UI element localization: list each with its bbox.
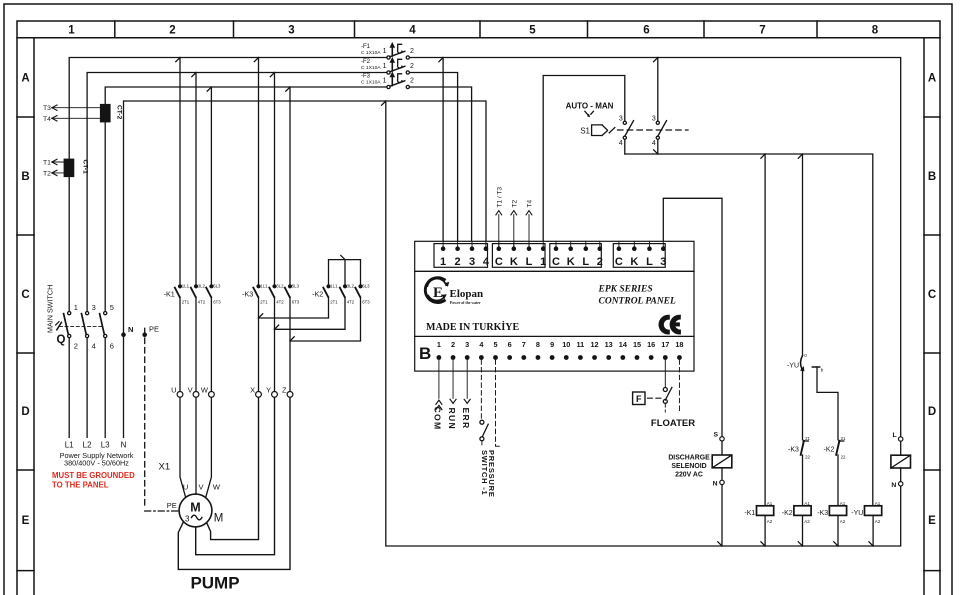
svg-text:U: U <box>171 386 176 395</box>
svg-text:ERR: ERR <box>461 408 471 430</box>
NC interlock contact -K2 (21-22) <box>823 436 846 460</box>
wire L3 branch to contactor K3 pole 3 <box>289 87 291 284</box>
discharge solenoid valve 220V AC <box>668 432 731 488</box>
selector switch S1 AUTO-MAN <box>566 102 688 148</box>
svg-text:4: 4 <box>92 342 96 351</box>
svg-text:T1 / T3: T1 / T3 <box>496 187 503 208</box>
svg-text:14: 14 <box>619 340 628 349</box>
svg-text:6T3: 6T3 <box>362 300 370 305</box>
svg-text:B: B <box>419 344 431 363</box>
svg-text:C 1X10A: C 1X10A <box>361 65 381 71</box>
svg-text:4T2: 4T2 <box>347 300 355 305</box>
svg-text:A2: A2 <box>804 519 810 524</box>
svg-text:22: 22 <box>841 454 846 459</box>
svg-text:CT-2: CT-2 <box>116 105 123 120</box>
motor M1: pump motor 3~ <box>167 494 224 527</box>
wire L2 drop from switch to supply terminal <box>86 338 88 438</box>
svg-text:2: 2 <box>451 340 455 349</box>
svg-text:4: 4 <box>409 25 416 37</box>
svg-text:6: 6 <box>643 25 649 37</box>
svg-text:A1: A1 <box>840 501 846 506</box>
svg-text:1: 1 <box>383 48 387 55</box>
wire L1 net: main switch to F1, branches to K1, K3, panel 1, S1, solenoid L <box>69 58 901 437</box>
svg-text:L2: L2 <box>83 441 92 450</box>
svg-text:21: 21 <box>805 436 810 441</box>
svg-text:S1: S1 <box>580 127 590 136</box>
svg-text:K: K <box>510 256 518 268</box>
svg-text:17: 17 <box>661 340 669 349</box>
svg-text:E: E <box>928 515 936 527</box>
svg-text:C: C <box>552 256 560 268</box>
wire motor return leads to X Y Z <box>178 397 290 569</box>
svg-text:4: 4 <box>652 140 656 147</box>
label EPK SERIES CONTROL PANEL <box>426 285 676 334</box>
svg-text:-K2: -K2 <box>782 510 793 517</box>
wire N net: neutral from switch to panel 4 and coil return bus <box>124 101 487 437</box>
svg-text:12: 12 <box>590 340 598 349</box>
svg-text:7: 7 <box>522 340 526 349</box>
svg-text:1: 1 <box>383 63 387 70</box>
svg-text:6T3: 6T3 <box>292 300 300 305</box>
svg-text:A1: A1 <box>767 501 773 506</box>
svg-text:DISCHARGE: DISCHARGE <box>668 455 710 462</box>
svg-text:C: C <box>615 256 623 268</box>
label PUMP <box>190 574 239 593</box>
svg-text:6: 6 <box>110 342 114 351</box>
svg-text:TO THE PANEL: TO THE PANEL <box>52 480 109 489</box>
svg-text:5L3: 5L3 <box>362 283 370 288</box>
terminal row B 1-18 <box>419 340 684 363</box>
svg-text:8: 8 <box>872 25 879 37</box>
svg-text:A1: A1 <box>875 501 881 506</box>
svg-text:3: 3 <box>660 256 666 268</box>
terminal block CKL3 on panel top <box>613 241 666 267</box>
node B2 RUN signal <box>447 360 457 430</box>
svg-text:-YU: -YU <box>851 510 863 517</box>
svg-text:A2: A2 <box>840 519 846 524</box>
svg-text:X: X <box>250 386 255 395</box>
relay coil -YU (A1-A2) <box>851 501 881 546</box>
NC interlock contact -K3 (21-22) <box>788 436 811 460</box>
svg-text:-YU: -YU <box>787 362 799 369</box>
wire K1 outputs to terminals U V W <box>180 297 211 391</box>
CE mark <box>658 315 680 335</box>
svg-text:T4: T4 <box>527 200 534 208</box>
svg-text:-K1: -K1 <box>744 510 755 517</box>
svg-text:-K1: -K1 <box>164 289 175 298</box>
node N terminal dot at main switch <box>121 325 133 337</box>
svg-text:L3: L3 <box>101 441 110 450</box>
node L1 L2 L3 N supply terminals <box>52 441 135 490</box>
svg-text:5: 5 <box>529 25 536 37</box>
svg-text:4T2: 4T2 <box>276 300 284 305</box>
svg-text:1: 1 <box>68 25 75 37</box>
svg-text:L: L <box>893 432 897 439</box>
contactor K1 main poles <box>164 283 222 304</box>
wire L3 net: main switch to F3, branches to K1, K3, panel 3 <box>105 87 471 312</box>
svg-text:5: 5 <box>493 340 497 349</box>
wire control feed from S1 contacts to coils rail <box>625 139 873 506</box>
circuit breaker F2 C 1X10A <box>361 57 414 74</box>
relay coil -K1 (A1-A2) <box>744 501 773 546</box>
wire branch to K1 coil <box>764 154 766 506</box>
svg-text:2T1: 2T1 <box>260 300 268 305</box>
node PE: protective earth terminal with dashed lead to motor <box>142 324 179 511</box>
svg-text:-K3: -K3 <box>788 446 799 453</box>
svg-text:MUST BE GROUNDED: MUST BE GROUNDED <box>52 471 135 480</box>
svg-text:1: 1 <box>540 256 546 268</box>
svg-text:Q: Q <box>57 334 66 346</box>
svg-text:S: S <box>713 432 718 439</box>
svg-text:N: N <box>891 482 896 489</box>
svg-text:L1: L1 <box>65 441 74 450</box>
wire L1 drop from switch to supply terminal <box>68 338 70 438</box>
svg-text:MADE IN TURKİYE: MADE IN TURKİYE <box>426 321 519 333</box>
wire solenoid N to bus <box>721 485 723 546</box>
wire from L1 row down to S1 second contact <box>657 58 659 122</box>
wire L1 branch to contactor K3 pole 1 <box>258 58 260 285</box>
svg-text:A2: A2 <box>767 519 773 524</box>
svg-text:5L3: 5L3 <box>213 283 221 288</box>
terminal block CKL2 on panel top <box>550 241 603 267</box>
svg-text:C: C <box>495 256 503 268</box>
op-amp U1: EPK control panel body <box>415 241 694 371</box>
svg-text:CT-1: CT-1 <box>82 160 89 175</box>
svg-text:21: 21 <box>841 436 846 441</box>
svg-text:PE: PE <box>149 324 159 333</box>
svg-text:b: b <box>821 368 824 373</box>
svg-text:A: A <box>21 73 29 85</box>
svg-text:A2: A2 <box>875 519 881 524</box>
svg-text:AUTO - MAN: AUTO - MAN <box>566 102 614 111</box>
wire YU b-throw to K2 NC contact <box>817 367 838 440</box>
svg-text:A1: A1 <box>804 501 810 506</box>
svg-text:L: L <box>526 256 533 268</box>
wire bridge joining K2 pole tops (star point) <box>329 255 361 284</box>
circuit breaker F3 C 1X10A <box>361 71 414 88</box>
svg-text:SWITCH -1: SWITCH -1 <box>480 450 489 496</box>
svg-text:18: 18 <box>675 340 683 349</box>
wire YU common output down to K3 NC contact <box>802 370 804 440</box>
svg-text:X1: X1 <box>159 462 171 473</box>
svg-text:K: K <box>630 256 638 268</box>
svg-text:C 1X10A: C 1X10A <box>361 50 381 56</box>
svg-text:8: 8 <box>536 340 540 349</box>
svg-text:4: 4 <box>619 140 623 147</box>
svg-text:B: B <box>928 171 936 183</box>
svg-text:4: 4 <box>483 256 490 268</box>
svg-text:2T1: 2T1 <box>330 300 338 305</box>
svg-text:15: 15 <box>633 340 641 349</box>
svg-text:2: 2 <box>597 256 603 268</box>
svg-text:0: 0 <box>804 353 807 358</box>
svg-text:6T3: 6T3 <box>213 300 221 305</box>
svg-text:3: 3 <box>652 115 656 122</box>
svg-text:T2: T2 <box>43 170 51 177</box>
svg-text:V: V <box>188 386 193 395</box>
terminal strip X1: terminals U V W X Y Z <box>159 386 293 473</box>
svg-text:2: 2 <box>74 342 78 351</box>
svg-text:W: W <box>201 386 209 395</box>
svg-text:3: 3 <box>619 115 623 122</box>
svg-text:U: U <box>183 482 188 491</box>
wire L2 net: main switch to F2, branches to K1, K3, panel 2 <box>87 73 458 312</box>
svg-text:C: C <box>21 289 29 301</box>
node B1 COM signal <box>433 360 443 431</box>
svg-text:M: M <box>190 501 200 515</box>
svg-text:3: 3 <box>288 25 294 37</box>
node B3 ERR signal <box>461 360 471 430</box>
svg-text:1: 1 <box>437 340 441 349</box>
svg-text:RUN: RUN <box>447 408 457 431</box>
svg-text:4T2: 4T2 <box>198 300 206 305</box>
current transformer CT-2 on L3 with T3 T4 secondary arrows <box>43 104 123 123</box>
svg-text:D: D <box>928 406 936 418</box>
svg-text:5L3: 5L3 <box>292 283 300 288</box>
svg-text:-F1: -F1 <box>361 44 371 50</box>
svg-text:1: 1 <box>74 303 78 312</box>
svg-text:L: L <box>646 256 653 268</box>
floater switch F on terminals B17 B18 <box>633 360 696 429</box>
svg-text:1L1: 1L1 <box>182 283 190 288</box>
svg-text:F: F <box>636 394 642 404</box>
svg-text:N: N <box>121 441 127 450</box>
svg-text:-F2: -F2 <box>361 59 371 65</box>
wire motor leads U V W <box>180 397 221 497</box>
svg-text:FLOATER: FLOATER <box>651 418 695 429</box>
wire K2 NC output down to coil <box>837 455 839 506</box>
wire L3 drop from switch to supply terminal <box>104 338 106 438</box>
svg-text:3L2: 3L2 <box>198 283 206 288</box>
svg-text:Z: Z <box>282 386 287 395</box>
svg-text:COM: COM <box>433 407 443 431</box>
svg-text:B: B <box>21 171 29 183</box>
wire panel terminal CKL3-3 to discharge solenoid S <box>663 198 722 436</box>
svg-text:6: 6 <box>508 340 512 349</box>
svg-text:-K3: -K3 <box>817 510 828 517</box>
svg-text:3: 3 <box>92 303 96 312</box>
svg-text:2: 2 <box>455 256 461 268</box>
circuit breaker F1 C 1X10A <box>361 42 414 59</box>
svg-text:C 1X10A: C 1X10A <box>361 80 381 86</box>
svg-text:3: 3 <box>185 515 190 524</box>
svg-text:N: N <box>128 325 133 334</box>
svg-text:11: 11 <box>577 340 585 349</box>
svg-text:PE: PE <box>167 501 177 510</box>
svg-text:1L1: 1L1 <box>330 283 338 288</box>
svg-text:380/400V - 50/60Hz: 380/400V - 50/60Hz <box>64 458 129 467</box>
svg-text:V: V <box>198 482 203 491</box>
svg-text:1L1: 1L1 <box>260 283 268 288</box>
svg-text:220V AC: 220V AC <box>675 471 703 478</box>
svg-text:A: A <box>928 73 936 85</box>
svg-text:E: E <box>433 285 443 301</box>
wire branch to YU changeover contact <box>802 154 804 354</box>
svg-text:L: L <box>582 256 589 268</box>
wire panel terminal CKL1-1 up and over to S1 contact <box>543 76 625 247</box>
wire K3 NC output down to coil <box>802 455 804 506</box>
svg-text:K: K <box>567 256 575 268</box>
Elopan logo <box>425 278 483 305</box>
svg-text:3: 3 <box>469 256 475 268</box>
node T1/T3 T2 T4 CT secondary connections to panel <box>496 187 534 247</box>
svg-text:Power of the water: Power of the water <box>450 301 481 305</box>
svg-text:M: M <box>214 513 224 525</box>
svg-text:SELENOID: SELENOID <box>671 463 706 470</box>
svg-text:-K2: -K2 <box>312 289 323 298</box>
svg-text:MAIN SWITCH: MAIN SWITCH <box>46 285 55 333</box>
svg-text:Elopan: Elopan <box>450 288 484 300</box>
auxiliary changeover contact -YU <box>787 353 824 373</box>
svg-text:N: N <box>713 481 718 488</box>
svg-text:-F3: -F3 <box>361 73 371 79</box>
svg-text:Y: Y <box>266 386 271 395</box>
svg-text:C: C <box>928 289 936 301</box>
svg-text:T2: T2 <box>511 200 518 208</box>
terminal block CKL1 on panel top <box>492 241 546 267</box>
svg-text:7: 7 <box>759 25 765 37</box>
contactor K3 main poles <box>242 283 300 304</box>
current transformer CT-1 on L1 with T1 T2 secondary arrows <box>43 159 89 178</box>
output solenoid L-N on right <box>891 432 911 489</box>
svg-text:3L2: 3L2 <box>347 283 355 288</box>
svg-text:10: 10 <box>562 340 570 349</box>
relay coil -K2 (A1-A2) <box>782 501 811 546</box>
svg-text:W: W <box>213 482 221 491</box>
wire L3 branch to contactor K1 pole 3 <box>210 87 212 284</box>
wire K3/K2 outputs to terminals X Y Z <box>259 297 361 391</box>
svg-text:2: 2 <box>410 48 414 55</box>
wire L2 branch to contactor K3 pole 2 <box>274 73 276 285</box>
wire N bus: A2 coil return bus along bottom <box>386 101 901 546</box>
wire L2 branch to contactor K1 pole 2 <box>195 73 197 285</box>
svg-text:16: 16 <box>647 340 655 349</box>
svg-text:2: 2 <box>410 63 414 70</box>
svg-text:5: 5 <box>110 303 114 312</box>
main switch Q: 3-pole disconnect with linkage <box>46 285 114 351</box>
svg-text:PUMP: PUMP <box>190 574 239 593</box>
svg-text:T4: T4 <box>43 116 51 123</box>
contactor K2 main poles <box>312 283 370 304</box>
svg-text:CONTROL PANEL: CONTROL PANEL <box>599 297 677 307</box>
svg-text:3L2: 3L2 <box>276 283 284 288</box>
svg-text:D: D <box>21 406 29 418</box>
svg-text:3: 3 <box>465 340 469 349</box>
svg-text:2: 2 <box>410 77 414 84</box>
svg-text:9: 9 <box>550 340 554 349</box>
svg-text:1: 1 <box>440 256 446 268</box>
relay coil -K3 (A1-A2) <box>817 501 846 546</box>
svg-text:-K2: -K2 <box>823 446 834 453</box>
svg-text:T1: T1 <box>43 160 51 167</box>
svg-text:13: 13 <box>605 340 613 349</box>
svg-text:E: E <box>22 515 30 527</box>
svg-text:EPK SERIES: EPK SERIES <box>598 285 653 295</box>
svg-text:T3: T3 <box>43 105 51 112</box>
pressure switch -1 on terminals B4 B5 <box>480 360 499 498</box>
svg-text:22: 22 <box>805 454 810 459</box>
wire L1 branch to contactor K1 pole 1 <box>179 58 181 285</box>
wire L1 branch to panel terminal 1 <box>442 58 444 247</box>
svg-text:2T1: 2T1 <box>182 300 190 305</box>
terminal block 1234 on panel top <box>434 241 490 267</box>
svg-text:-K3: -K3 <box>242 289 253 298</box>
svg-text:1: 1 <box>383 77 387 84</box>
svg-text:2: 2 <box>169 25 175 37</box>
